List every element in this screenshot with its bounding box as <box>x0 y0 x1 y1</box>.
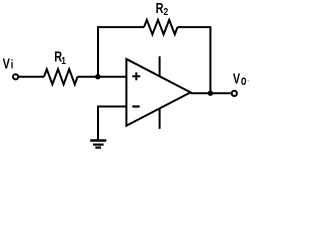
ground <box>90 141 106 148</box>
wire vertical rail from junction up to feedback <box>97 27 99 77</box>
node label Vo subscript o <box>241 74 247 88</box>
op-amp U1 negative power stub <box>159 109 161 129</box>
wire input from terminal to R1 <box>19 76 44 78</box>
svg-text:o: o <box>241 74 247 88</box>
resistor label R1 subscript 1 <box>61 55 66 67</box>
node label Vo letter V <box>233 71 241 87</box>
op-amp U1 triangle <box>126 59 190 126</box>
resistor R1 <box>44 69 78 84</box>
node junction dot after R1 <box>95 74 100 79</box>
svg-text:V: V <box>3 56 11 72</box>
stray faint dot after Vo <box>248 80 249 81</box>
svg-text:V: V <box>233 71 241 87</box>
op-amp U1 positive power stub <box>159 56 161 76</box>
node label Vi letter V <box>3 56 11 72</box>
resistor R2 <box>144 20 178 35</box>
wire output from op-amp to terminal <box>191 92 231 94</box>
wire top rail right segment <box>178 27 211 93</box>
wire R1 to op-amp plus input <box>78 76 127 78</box>
svg-text:R: R <box>156 1 164 17</box>
terminal input Vi circle <box>13 74 18 79</box>
op-amp U1 plus sign <box>132 72 140 80</box>
resistor label R1 letter R <box>54 49 62 65</box>
resistor label R2 subscript 2 <box>164 6 169 18</box>
wire top rail left segment <box>97 26 144 28</box>
svg-text:i: i <box>11 60 14 72</box>
node junction dot at output <box>208 91 213 96</box>
resistor label R2 letter R <box>156 1 164 17</box>
terminal output Vo circle <box>232 91 237 96</box>
wire inverting input to ground <box>98 107 127 141</box>
node label Vi subscript i <box>11 60 14 72</box>
op-amp U1 minus sign <box>132 105 139 107</box>
svg-text:2: 2 <box>164 6 169 18</box>
svg-text:1: 1 <box>61 55 66 67</box>
